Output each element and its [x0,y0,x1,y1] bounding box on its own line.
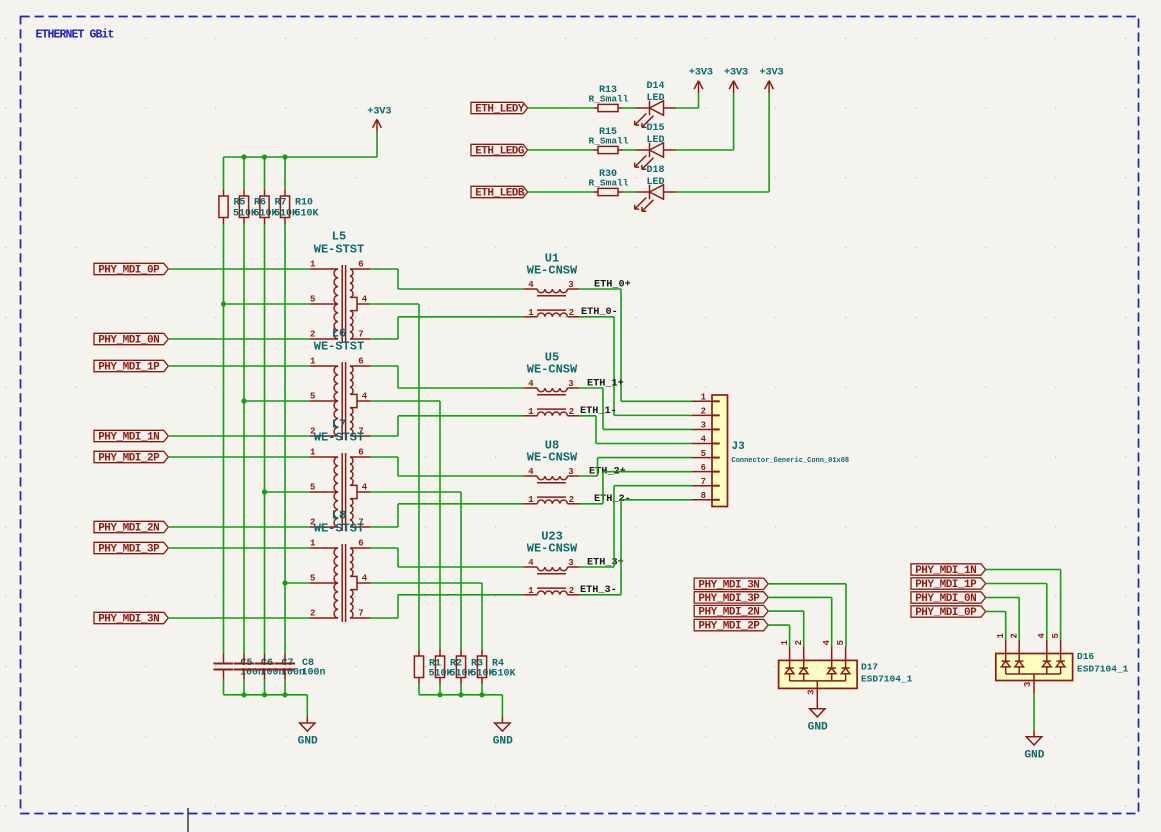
wire ETH_3- into J3 pin 8 [621,499,692,501]
svg-text:PHY_MDI_3P: PHY_MDI_3P [698,593,760,605]
wire resistor gnd bus [419,694,502,696]
svg-text:D17: D17 [861,662,878,673]
capacitor C6 [243,654,245,664]
wire L8 pin7 to U23 pin1 [398,594,524,596]
svg-text:PHY_MDI_0P: PHY_MDI_0P [915,607,977,619]
wire L7 pin4 tap a [370,491,461,493]
svg-text:4: 4 [528,467,534,477]
wire PHY_MDI_1P to D16 [986,583,1047,585]
svg-text:L7: L7 [332,418,346,432]
transformer L7 WE-STST [310,453,370,531]
svg-text:1: 1 [310,447,316,457]
wire PHY_MDI_3N down to D17 pin [845,584,847,647]
wire R15 to D15 [623,149,637,151]
svg-text:1: 1 [996,633,1006,639]
wire ETH_3+ horizontal [579,566,614,568]
svg-text:WE-STST: WE-STST [314,340,364,354]
wire ETH_3- horizontal [579,594,621,596]
wire PHY_MDI_0P down to D16 pin [1005,612,1007,641]
wire L6 pin6 to U5 pin4 [398,387,524,389]
wire ETH_0- vertical to J3 pin 2 [613,317,615,416]
svg-text:2: 2 [794,640,804,645]
hierarchical label PHY_MDI_2N [94,521,168,532]
svg-text:R_Small: R_Small [589,178,629,189]
svg-text:D16: D16 [1077,651,1094,662]
svg-text:LED: LED [646,93,664,104]
wire R4 to gnd bus [481,684,483,695]
wire bus to R5 [223,157,225,189]
svg-text:J3: J3 [732,441,746,453]
wire to GND1 [306,695,308,717]
resistor R7 [264,189,266,196]
common-mode choke U23 WE-CNSW [524,567,580,595]
wire L6 pin4 tap down [439,401,441,649]
svg-text:R_Small: R_Small [589,94,629,105]
svg-text:WE-STST: WE-STST [314,522,364,536]
wire L8 pin7 b [397,595,399,618]
wire L6 pin6 a [370,365,398,367]
svg-text:2: 2 [701,407,706,417]
wire PHY_MDI_1N down to D16 pin [1060,570,1062,641]
svg-text:3: 3 [568,558,573,568]
resistor R15 [594,149,599,151]
wire ETH_0+ into J3 pin 1 [621,400,692,402]
svg-text:PHY_MDI_1N: PHY_MDI_1N [98,432,159,444]
svg-text:4: 4 [528,558,534,568]
wire PHY_MDI_1N to transformer [168,435,310,437]
wire PHY_MDI_3P down to D17 pin [831,597,833,647]
svg-text:D15: D15 [646,123,664,134]
wire L6 pin4 tap a [370,400,440,402]
wire ETH_LEDG to R15 [528,149,593,151]
svg-text:GND: GND [298,736,318,748]
wire L8 pin6 to U23 pin4 [398,566,524,568]
wire L5 pin7 a [370,338,398,340]
svg-text:GND: GND [1024,750,1044,762]
wire C7 to gnd bus [264,679,266,695]
wire bus to R7 [264,157,266,189]
wire ETH_3+ vertical to J3 pin 7 [613,486,615,567]
junction tap L7 [262,489,267,494]
wire PHY_MDI_2P to transformer [168,456,310,458]
svg-text:5: 5 [310,573,315,583]
svg-text:7: 7 [358,329,363,339]
common-mode choke U8 WE-CNSW [524,476,580,504]
wire ETH_LEDB to R30 [528,191,593,193]
J3 pin 5 [692,457,712,459]
wire R13 to D14 [623,107,637,109]
svg-text:ETH_LEDY: ETH_LEDY [475,104,525,116]
wire ETH_2+ vertical to J3 pin 5 [597,458,599,476]
svg-text:PHY_MDI_3P: PHY_MDI_3P [98,544,160,556]
hierarchical label ETH_LEDG [471,144,528,155]
wire PHY_MDI_3N to D17 [768,583,846,585]
wire ETH_2+ into J3 pin 5 [598,457,693,459]
hierarchical label PHY_MDI_0N [94,333,168,344]
J3 pin 7 [692,485,712,487]
hierarchical label PHY_MDI_3P [694,592,768,603]
wire ETH_1+ horizontal [579,387,603,389]
hierarchical label ETH_LEDB [471,186,528,197]
svg-text:3: 3 [806,689,816,694]
wire L7 pin6 to U8 pin4 [398,475,524,477]
svg-text:2: 2 [1009,633,1019,638]
svg-text:R_Small: R_Small [589,136,629,147]
wire PHY_MDI_3P to transformer [168,547,310,549]
J3 pin 8 [692,499,712,501]
wire D14 to +3V3 [676,107,699,109]
resistor R30 [594,191,599,193]
svg-text:5: 5 [310,391,315,401]
wire PHY_MDI_1P down to D16 pin [1046,584,1048,641]
svg-text:4: 4 [362,573,368,583]
J3 pin 1 [692,400,712,402]
power symbol +3V3 for D15 [733,93,735,150]
svg-text:L8: L8 [332,509,346,523]
wire L6 pin7 a [370,435,398,437]
svg-text:4: 4 [528,379,534,389]
svg-text:WE-CNSW: WE-CNSW [527,264,578,278]
wire L6 pin7 b [397,416,399,436]
svg-text:PHY_MDI_0P: PHY_MDI_0P [98,265,160,277]
J3 pin 6 [692,471,712,473]
svg-text:1: 1 [310,356,316,366]
wire PHY_MDI_2N down to D17 pin [803,611,805,647]
svg-text:PHY_MDI_2N: PHY_MDI_2N [698,607,759,619]
wire R3 to gnd bus [460,684,462,695]
wire R30 to D18 [623,191,637,193]
junction tap L6 [241,398,246,403]
svg-text:PHY_MDI_2P: PHY_MDI_2P [698,621,760,633]
wire L6 pin7 to U5 pin1 [398,415,524,417]
svg-text:ESD7104_1: ESD7104_1 [1077,664,1129,675]
resistor R2 [439,649,441,656]
resistor R6 [243,189,245,196]
svg-text:5: 5 [1051,633,1061,638]
svg-text:L6: L6 [332,327,346,341]
wire bus tap to L5 pin5 [224,303,311,305]
ESD protection diode array D17 ESD7104_1 [779,660,858,688]
cursor tick [187,808,189,832]
power symbol +3V3 left [376,132,378,157]
wire L8 pin4 tap down [481,583,483,649]
svg-text:R10: R10 [295,198,313,209]
wire R10 down to C [284,224,286,654]
resistor R5 [223,189,225,196]
wire L5 pin6 a [370,268,398,270]
wire L5 pin7 to U1 pin1 [398,316,524,318]
wire ETH_1+ vertical to J3 pin 3 [602,388,604,429]
wire L5 pin7 b [397,317,399,339]
J3 pin 4 [692,443,712,445]
svg-text:6: 6 [358,356,363,366]
capacitor C7 [264,654,266,664]
wire L5 pin6 to U1 pin4 [398,288,524,290]
wire ETH_0+ vertical to J3 pin 1 [620,289,622,401]
wire ETH_2- into J3 pin 6 [603,471,692,473]
wire ETH_2- horizontal [579,503,603,505]
wire PHY_MDI_0P to D16 [986,611,1006,613]
wire ETH_LEDY to R13 [528,107,593,109]
transformer L8 WE-STST [310,544,370,622]
wire ETH_0- into J3 pin 2 [614,414,692,416]
LED D18 [635,185,676,212]
wire L5 pin4 tap a [370,303,419,305]
power symbol GND (capacitor group) [306,717,308,723]
hierarchical label ETH_LEDY [471,102,528,113]
svg-text:6: 6 [701,463,706,473]
svg-text:4: 4 [528,280,534,290]
wire L8 pin6 b [397,548,399,567]
svg-text:D14: D14 [646,81,664,92]
svg-text:+3V3: +3V3 [759,67,783,79]
wire C6 to gnd bus [243,679,245,695]
svg-text:PHY_MDI_1N: PHY_MDI_1N [915,565,976,577]
svg-text:3: 3 [1023,682,1033,687]
wire D15 to +3V3 [676,149,734,151]
hierarchical label PHY_MDI_0P [94,263,168,274]
hierarchical label PHY_MDI_1P [911,578,986,589]
J3 pin 3 [692,428,712,430]
hierarchical label PHY_MDI_1P [94,360,168,371]
svg-text:3: 3 [568,467,573,477]
junction cap gnd bus x=285 [282,692,287,697]
svg-text:1: 1 [528,407,534,417]
common-mode choke U1 WE-CNSW [524,289,580,317]
wire D16 to GND [1033,694,1035,731]
wire PHY_MDI_2P to D17 [768,624,789,626]
svg-text:ETH_LEDG: ETH_LEDG [475,146,525,158]
svg-text:2: 2 [310,329,315,339]
resistor R3 [460,649,462,656]
junction R gnd bus x=461 [458,692,463,697]
wire to GND2 [501,695,503,717]
wire ETH_1- horizontal [579,415,596,417]
svg-text:1: 1 [780,639,790,645]
wire L7 pin7 a [370,526,398,528]
wire ETH_1- vertical to J3 pin 4 [595,416,597,444]
svg-text:5: 5 [310,294,315,304]
svg-text:+3V3: +3V3 [724,67,748,79]
svg-text:100n: 100n [302,668,326,679]
junction R gnd bus x=440 [437,692,442,697]
power symbol GND (resistor group) [501,717,503,723]
power symbol +3V3 for D14 [698,93,700,108]
wire ETH_3- vertical to J3 pin 8 [620,500,622,595]
resistor R1 [418,649,420,656]
svg-text:2: 2 [569,495,574,505]
hierarchical label PHY_MDI_2N [694,605,768,616]
svg-text:1: 1 [310,259,316,269]
wire PHY_MDI_2P down to D17 pin [789,625,791,647]
wire bus tap to L8 pin5 [285,582,310,584]
wire R7 down to C [264,224,266,654]
power symbol GND (D17) [816,702,818,708]
svg-text:4: 4 [822,639,832,645]
hierarchical label PHY_MDI_3P [94,542,168,553]
svg-text:4: 4 [362,482,368,492]
svg-text:2: 2 [569,308,574,318]
svg-text:7: 7 [701,477,706,487]
svg-text:ETHERNET GBit: ETHERNET GBit [36,29,114,42]
junction cap gnd bus x=244 [241,692,246,697]
svg-text:GND: GND [493,736,513,748]
hierarchical label PHY_MDI_2P [94,451,168,462]
svg-text:D18: D18 [646,165,664,176]
wire L5 pin6 b [397,269,399,289]
svg-text:1: 1 [701,393,707,403]
wire R2 to gnd bus [439,684,441,695]
svg-text:+3V3: +3V3 [367,105,391,117]
svg-text:WE-STST: WE-STST [314,431,364,445]
svg-text:6: 6 [358,538,363,548]
svg-text:PHY_MDI_0N: PHY_MDI_0N [98,335,159,347]
svg-text:Connector_Generic_Conn_01x08: Connector_Generic_Conn_01x08 [732,457,850,465]
svg-text:1: 1 [528,586,534,596]
svg-text:8: 8 [701,491,706,501]
svg-text:PHY_MDI_0N: PHY_MDI_0N [915,593,976,605]
transformer L6 WE-STST [310,362,370,440]
wire PHY_MDI_2N to D17 [768,610,803,612]
wire L5 pin4 tap down [418,304,420,649]
junction cap gnd bus x=264.5 [262,692,267,697]
svg-text:5: 5 [310,482,315,492]
svg-text:6: 6 [358,447,363,457]
wire R5 down to C [223,224,225,654]
hierarchical label PHY_MDI_0N [911,592,986,603]
svg-text:ESD7104_1: ESD7104_1 [861,674,913,685]
svg-text:+3V3: +3V3 [689,67,713,79]
svg-text:LED: LED [646,177,664,188]
ESD protection diode array D16 ESD7104_1 [996,654,1073,681]
power symbol +3V3 for D18 [768,93,770,192]
wire ETH_0+ horizontal [579,288,621,290]
hierarchical label PHY_MDI_2P [694,619,768,630]
svg-text:2: 2 [569,407,574,417]
svg-text:1: 1 [528,495,534,505]
wire ETH_3+ into J3 pin 7 [614,485,692,487]
junction tap L5 [221,301,226,306]
svg-text:7: 7 [358,608,363,618]
wire ETH_0- horizontal [579,316,614,318]
junction R gnd bus x=482 [479,692,484,697]
wire C8 to gnd bus [284,679,286,695]
wire PHY_MDI_1N to D16 [986,569,1061,571]
svg-text:1: 1 [528,308,534,318]
capacitor C8 [284,654,286,664]
junction top bus x=264.5 [262,154,267,159]
svg-text:LED: LED [646,135,664,146]
svg-text:GND: GND [808,721,828,733]
svg-text:5: 5 [701,449,706,459]
svg-text:WE-CNSW: WE-CNSW [527,451,578,465]
transformer L5 WE-STST [310,265,370,343]
hierarchical label PHY_MDI_1N [911,564,986,575]
junction tap L8 [282,580,287,585]
resistor R13 [594,107,599,109]
hierarchical label PHY_MDI_3N [694,578,768,589]
wire R1 to gnd bus [418,684,420,695]
wire L7 pin4 tap down [460,492,462,649]
resistor R10 [284,189,286,196]
hierarchical label PHY_MDI_0P [911,606,986,617]
wire PHY_MDI_3P to D17 [768,596,831,598]
wire C5 to gnd bus [223,679,225,695]
wire L6 pin6 b [397,366,399,388]
junction top bus x=285 [282,154,287,159]
wire L8 pin4 tap a [370,582,482,584]
svg-text:3: 3 [568,280,573,290]
svg-text:4: 4 [362,391,368,401]
hierarchical label PHY_MDI_3N [94,612,168,623]
wire bus to R10 [284,157,286,189]
hierarchical label PHY_MDI_1N [94,430,168,441]
junction top bus x=244 [241,154,246,159]
svg-text:4: 4 [1037,633,1047,639]
svg-text:PHY_MDI_3N: PHY_MDI_3N [98,614,159,626]
svg-text:6: 6 [358,259,363,269]
svg-text:PHY_MDI_3N: PHY_MDI_3N [698,579,759,591]
wire L8 pin7 a [370,617,398,619]
svg-text:PHY_MDI_1P: PHY_MDI_1P [915,579,977,591]
svg-text:PHY_MDI_2N: PHY_MDI_2N [98,523,159,535]
wire L7 pin7 to U8 pin1 [398,503,524,505]
wire PHY_MDI_0N down to D16 pin [1018,598,1020,641]
wire L8 pin6 a [370,547,398,549]
connector J3 Connector_Generic_Conn_01x08 [712,395,728,507]
wire ETH_2- vertical to J3 pin 6 [602,472,604,504]
svg-text:510K: 510K [492,669,516,680]
J3 pin 2 [692,414,712,416]
wire +3V3 top bus [224,156,378,158]
svg-text:3: 3 [701,421,706,431]
wire R6 down to C [243,224,245,654]
svg-text:3: 3 [568,379,573,389]
wire PHY_MDI_0N to D16 [986,597,1020,599]
svg-text:1: 1 [310,538,316,548]
wire capacitor gnd bus [224,694,308,696]
svg-text:5: 5 [836,640,846,645]
wire ETH_2+ horizontal [579,475,598,477]
wire bus tap to L7 pin5 [265,491,311,493]
capacitor C5 [223,654,225,664]
svg-text:510K: 510K [295,208,319,219]
wire PHY_MDI_3N to transformer [168,617,310,619]
svg-text:WE-STST: WE-STST [314,243,364,257]
power symbol GND (D16) [1033,731,1035,737]
wire L7 pin6 b [397,457,399,476]
LED D14 [635,101,676,128]
svg-text:WE-CNSW: WE-CNSW [527,363,578,377]
wire PHY_MDI_2N to transformer [168,526,310,528]
resistor R4 [481,649,483,656]
svg-text:4: 4 [362,294,368,304]
svg-text:L5: L5 [332,230,346,244]
wire PHY_MDI_0P to transformer [168,268,310,270]
svg-text:ETH_LEDB: ETH_LEDB [475,188,525,200]
wire bus to R6 [243,157,245,189]
wire PHY_MDI_1P to transformer [168,365,310,367]
wire D18 to +3V3 [676,191,769,193]
wire L7 pin6 a [370,456,398,458]
svg-text:4: 4 [701,435,707,445]
wire ETH_1+ into J3 pin 3 [603,428,692,430]
wire bus tap to L6 pin5 [244,400,310,402]
wire L7 pin7 b [397,504,399,527]
svg-text:PHY_MDI_1P: PHY_MDI_1P [98,362,160,374]
wire ETH_1- into J3 pin 4 [596,443,692,445]
wire D17 pin3 to GND [816,688,818,702]
